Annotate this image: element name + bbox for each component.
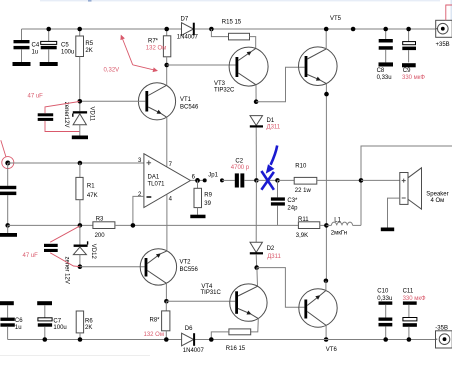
- svg-text:-35В: -35В: [435, 325, 448, 331]
- wire bottom rail left section: [8, 339, 182, 341]
- wire VT6 emitter to rail: [325, 325, 327, 339]
- wire VT1 base from zener node: [80, 100, 146, 102]
- wire VT3 collector down: [255, 85, 257, 102]
- svg-text:3,9K: 3,9K: [296, 233, 308, 239]
- capacitor 47uF red annotation bottom: [23, 226, 80, 266]
- wire top positive rail: [22, 28, 182, 30]
- ground speaker: [381, 228, 394, 232]
- svg-text:BC556: BC556: [180, 267, 199, 273]
- node rail C9: [406, 27, 411, 32]
- transistor VT3: [214, 47, 268, 93]
- node rail unconnected: [351, 27, 356, 32]
- svg-text:1N4007: 1N4007: [183, 348, 205, 354]
- blue arrow annotation: [266, 146, 277, 174]
- transistor VT6: [299, 289, 338, 353]
- svg-text:D2: D2: [267, 246, 275, 252]
- svg-text:24p: 24p: [287, 205, 298, 211]
- ground below R9: [190, 215, 205, 219]
- svg-text:C2: C2: [235, 158, 243, 164]
- node bottom rail R8: [164, 337, 169, 342]
- node input: [5, 161, 10, 166]
- svg-text:C11: C11: [403, 289, 414, 295]
- wire VT4 emitter to R16: [251, 319, 259, 332]
- svg-text:R9: R9: [204, 192, 212, 198]
- capacitor C6: [0, 301, 23, 339]
- svg-text:1u: 1u: [15, 325, 22, 331]
- svg-text:47K: 47K: [87, 193, 98, 199]
- svg-text:R10: R10: [295, 164, 307, 170]
- svg-text:C4: C4: [32, 42, 40, 48]
- wire VT5 emitter down to VT6: [325, 84, 327, 281]
- svg-text:VT6: VT6: [326, 347, 338, 353]
- svg-text:+35В: +35В: [436, 42, 450, 48]
- svg-text:R11: R11: [298, 217, 309, 223]
- wire VT6 base path: [257, 268, 305, 308]
- blue X annotation: [261, 171, 274, 190]
- svg-text:L1: L1: [334, 217, 341, 223]
- node C2 out: [254, 178, 259, 183]
- wire speaker minus to ground: [388, 198, 400, 227]
- resistor R1: [76, 163, 98, 225]
- node bottom rail VT6: [324, 337, 329, 342]
- svg-text:132 Ом: 132 Ом: [144, 332, 164, 338]
- node feedback pin2 tap: [131, 223, 136, 228]
- ground below C4: [13, 62, 31, 66]
- svg-text:47 uF: 47 uF: [23, 253, 39, 259]
- node VT3 collector / D1 / VT5 base: [254, 99, 259, 104]
- transistor VT1: [138, 83, 199, 120]
- wire D2 to node: [255, 254, 258, 267]
- jumper Jp1: [203, 173, 224, 183]
- svg-text:2K: 2K: [85, 48, 92, 54]
- svg-text:Speaker: Speaker: [426, 192, 448, 198]
- node output R9: [195, 178, 200, 183]
- wire D2 column: [255, 180, 257, 242]
- svg-text:0,33u: 0,33u: [377, 296, 392, 302]
- inductor L1: [326, 217, 361, 236]
- wire VT5 collector to rail: [325, 29, 327, 49]
- svg-text:VT5: VT5: [330, 16, 342, 22]
- node input line R1 tap: [78, 161, 83, 166]
- svg-text:C9: C9: [403, 68, 411, 74]
- ground at input: [0, 225, 17, 236]
- node rail C8: [383, 27, 388, 32]
- resistor R10: [278, 164, 362, 194]
- wire VT5 base path: [256, 67, 305, 101]
- wire top rail right of D7: [195, 28, 436, 30]
- wire VT6 collector: [325, 281, 327, 291]
- wire VT4 base: [166, 300, 235, 302]
- resistor R8*: [144, 301, 170, 339]
- svg-text:VD12: VD12: [90, 244, 96, 260]
- node rail VT5: [324, 27, 329, 32]
- input terminal red circle: [1, 140, 14, 168]
- svg-text:R1: R1: [87, 184, 95, 190]
- node bottom rail R16: [209, 337, 214, 342]
- svg-text:VT1: VT1: [180, 97, 192, 103]
- wire input to opamp pin3: [8, 162, 144, 164]
- faint bottom-left window edge: [0, 355, 150, 356]
- node feedback R1/VD12: [78, 223, 83, 228]
- capacitor 47uF red annotation top: [28, 94, 80, 132]
- svg-text:DA1: DA1: [148, 175, 160, 181]
- resistor R3: [93, 217, 115, 239]
- svg-text:D6: D6: [185, 326, 193, 332]
- svg-text:Д311: Д311: [267, 125, 281, 131]
- node output L1/R11: [324, 223, 329, 228]
- op-amp U1 DA1 TL071: [138, 154, 196, 208]
- top UI strip fragment: [40, 0, 440, 1]
- svg-text:R6: R6: [85, 318, 93, 324]
- zener VD11: [63, 101, 95, 135]
- wire output riser: [361, 146, 452, 225]
- resistor R16: [211, 329, 250, 352]
- diode D6: [182, 326, 205, 354]
- wire opamp pin2 feedback: [133, 196, 144, 225]
- resistor R7*: [146, 29, 171, 65]
- svg-text:C6: C6: [15, 318, 23, 324]
- resistor R11: [296, 217, 320, 239]
- svg-text:Д311: Д311: [267, 254, 281, 260]
- svg-text:TL071: TL071: [148, 182, 166, 188]
- node rail R15 tap: [209, 27, 214, 32]
- node VD12/R6/VT2 base: [78, 264, 83, 269]
- wire VT1 emitter to opamp pin7: [166, 117, 168, 166]
- node C3 tap: [275, 178, 280, 183]
- transistor VT2: [140, 249, 198, 285]
- svg-text:47 uF: 47 uF: [28, 94, 44, 100]
- capacitor C2: [222, 158, 256, 187]
- red annotation 0,32V with arrows: [104, 36, 158, 74]
- wire R11 to output node: [320, 224, 327, 226]
- node bottom rail C7: [43, 337, 48, 342]
- capacitor C7: [37, 301, 67, 339]
- transistor VT4: [201, 284, 268, 322]
- terminal -35V: [435, 325, 452, 348]
- svg-text:100u: 100u: [53, 325, 66, 331]
- svg-text:TIP31C: TIP31C: [201, 290, 222, 296]
- svg-text:R16 15: R16 15: [226, 346, 246, 352]
- node bottom rail C11: [407, 337, 412, 342]
- svg-text:BC546: BC546: [180, 104, 199, 110]
- svg-text:C3*: C3*: [287, 198, 298, 204]
- node D2/VT4 collector/VT6 base: [254, 265, 259, 270]
- capacitor C4: [14, 29, 40, 62]
- capacitor C9: [402, 29, 425, 81]
- wire feedback line mid section: [115, 224, 299, 226]
- svg-text:2K: 2K: [85, 325, 92, 331]
- svg-text:R3: R3: [96, 217, 104, 223]
- resistor R6: [76, 311, 93, 340]
- svg-text:D1: D1: [267, 118, 275, 124]
- svg-text:132 Ом: 132 Ом: [146, 45, 166, 51]
- svg-text:D7: D7: [181, 17, 189, 23]
- svg-text:100u: 100u: [61, 50, 74, 56]
- node feedback line left: [5, 223, 10, 228]
- speaker LS1: [400, 168, 449, 209]
- wire VT4 collector: [256, 268, 259, 287]
- svg-text:VT3: VT3: [214, 81, 226, 87]
- svg-text:330 мкФ: 330 мкФ: [402, 75, 425, 81]
- svg-text:R5: R5: [85, 41, 93, 47]
- svg-text:4700 p: 4700 p: [231, 165, 250, 171]
- wire VT2 base: [80, 266, 145, 268]
- svg-text:1u: 1u: [32, 50, 39, 56]
- wire speaker plus: [361, 179, 400, 181]
- wire crossed out: [256, 179, 277, 181]
- svg-text:R7*: R7*: [148, 38, 159, 44]
- svg-text:0,32V: 0,32V: [104, 68, 120, 74]
- svg-text:0,33u: 0,33u: [377, 75, 392, 81]
- zener VD12: [64, 225, 96, 283]
- ground below VD11: [72, 136, 88, 140]
- node VT2 collector/R8/VT4 base: [164, 299, 169, 304]
- node speaker tap: [359, 178, 364, 183]
- node bottom rail R6: [78, 337, 83, 342]
- resistor R15: [211, 19, 255, 48]
- diode D2: [250, 242, 282, 260]
- wire VT2 collector down: [165, 283, 167, 301]
- capacitor C8: [377, 29, 393, 81]
- diode D7: [177, 17, 199, 41]
- diode D1: [250, 116, 281, 131]
- node rail R7: [164, 27, 169, 32]
- node above VT6: [324, 279, 329, 284]
- svg-text:2мкГн: 2мкГн: [331, 231, 347, 237]
- svg-text:C8: C8: [377, 68, 385, 74]
- resistor R5: [76, 29, 94, 101]
- wire feedback line left section: [8, 224, 93, 226]
- capacitor C10: [377, 289, 392, 340]
- svg-text:22 1w: 22 1w: [295, 188, 312, 194]
- node bottom rail C10: [383, 337, 388, 342]
- svg-text:R8*: R8*: [150, 317, 161, 323]
- terminal +35V: [436, 20, 452, 48]
- svg-text:zener12V: zener12V: [63, 102, 69, 128]
- ground below C5: [40, 62, 58, 66]
- svg-text:VD11: VD11: [89, 107, 95, 122]
- svg-text:C7: C7: [53, 318, 61, 324]
- wire opamp pin4 to VT2 emitter: [166, 194, 168, 251]
- capacitor C3*: [271, 180, 298, 225]
- svg-text:39: 39: [204, 201, 211, 207]
- wire D1 to output node: [255, 128, 257, 179]
- svg-text:TIP32C: TIP32C: [214, 87, 235, 93]
- node rail R5: [77, 27, 82, 32]
- svg-text:C10: C10: [377, 289, 389, 295]
- transistor VT5: [299, 16, 342, 86]
- svg-text:330 мкФ: 330 мкФ: [403, 296, 426, 302]
- svg-text:1N4007: 1N4007: [177, 35, 199, 41]
- capacitor C11: [403, 289, 426, 340]
- wire bottom rail right section: [195, 339, 436, 341]
- capacitor C5: [41, 29, 75, 62]
- svg-text:C5: C5: [61, 42, 69, 48]
- svg-text:VT4: VT4: [201, 284, 213, 290]
- wire opamp output: [190, 179, 204, 181]
- svg-text:4 Ом: 4 Ом: [431, 198, 445, 204]
- svg-text:200: 200: [95, 233, 106, 239]
- node R7/VT1/VT3 base: [164, 63, 169, 68]
- wire VT1 collector to node: [166, 65, 168, 85]
- svg-text:Jp1: Jp1: [208, 173, 218, 179]
- red wire fragment top right: [446, 5, 452, 20]
- svg-text:R15 15: R15 15: [222, 19, 242, 25]
- node below VT5 emitter: [324, 92, 329, 97]
- capacitor input (left edge): [0, 163, 16, 225]
- node rail C5: [46, 27, 51, 32]
- resistor R9: [194, 180, 213, 214]
- node R5/VD11/VT1 base: [78, 99, 83, 104]
- wire VT3 base: [167, 64, 236, 66]
- svg-text:VT2: VT2: [180, 260, 192, 266]
